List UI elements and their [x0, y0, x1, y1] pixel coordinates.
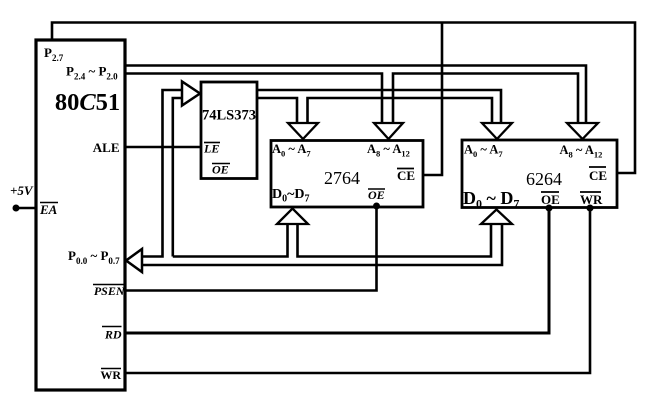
junction dot at 6264 WR pin	[587, 205, 594, 212]
bus arrowhead into 6264 A8~A12	[567, 123, 598, 139]
bus arrowhead into 2764 D0~D7	[277, 209, 308, 225]
bus latch output lower line to 2764 A0 stem	[257, 98, 297, 123]
svg-text:PSEN: PSEN	[94, 284, 126, 298]
SRAM U4 6264 box	[462, 140, 617, 208]
svg-text:74LS373: 74LS373	[202, 108, 256, 124]
bus P2.4~P2.0 lower line right segment to 6264 A8 stem	[393, 74, 578, 124]
svg-text:2764: 2764	[324, 168, 360, 188]
buffer triangle at 74LS373 input	[182, 82, 200, 106]
svg-text:+5V: +5V	[10, 183, 34, 198]
bus P2.4~P2.0 lower line left segment to 2764 A8 stem	[125, 74, 382, 124]
bus P0 latch stem right edge	[173, 98, 182, 257]
svg-text:CE: CE	[589, 168, 607, 183]
wire PSEN to 2764 OE	[125, 206, 377, 291]
svg-text:RD: RD	[104, 328, 122, 342]
microcontroller U1 80C51 box	[36, 40, 125, 390]
wire RD to 6264 OE	[125, 207, 549, 333]
svg-text:80C51: 80C51	[55, 89, 120, 116]
svg-text:D0 ~ D7: D0 ~ D7	[463, 188, 519, 211]
bus P2.4~P2.0 upper line	[125, 66, 586, 124]
bus P0 lower line full run	[142, 224, 502, 265]
svg-text:6264: 6264	[526, 169, 562, 189]
svg-text:WR: WR	[100, 368, 121, 382]
svg-text:EA: EA	[39, 202, 58, 217]
port P0 bidirectional triangle at 80C51	[126, 249, 142, 272]
svg-text:OE: OE	[368, 188, 385, 202]
svg-text:WR: WR	[580, 192, 603, 207]
latch U2 74LS373 box	[201, 82, 257, 179]
bus arrowhead into 2764 A0~A7	[288, 123, 318, 139]
wire branch P2.7 down to 2764 CE	[423, 23, 442, 176]
bus arrowhead into 6264 D0~D7	[481, 210, 512, 225]
bus latch output middle segment 2764 to 6264	[308, 98, 493, 123]
svg-text:D0~D7: D0~D7	[272, 187, 310, 205]
svg-text:OE: OE	[212, 163, 229, 177]
bus P0 upper line segment to 2764 D stem	[173, 224, 288, 257]
svg-text:CE: CE	[397, 168, 415, 183]
bus P0 upper line from port triangle up to latch input	[142, 90, 182, 257]
bus latch output upper line to 6264 A0 stem	[257, 90, 501, 123]
bus arrowhead into 2764 A8~A12	[374, 123, 403, 139]
svg-text:OE: OE	[541, 192, 560, 207]
junction dot at 6264 OE pin	[546, 205, 553, 212]
wire ALE to 74LS373 LE	[125, 146, 201, 149]
bus P0 upper line segment 2764 D to 6264 D stem	[298, 224, 492, 257]
wire +5V to EA pin	[16, 207, 36, 209]
bus arrowhead into 6264 A0~A7	[482, 123, 512, 139]
wire WR to 6264 WR	[125, 207, 590, 373]
svg-text:LE: LE	[203, 142, 219, 156]
EPROM U3 2764 box	[271, 141, 423, 208]
wire net P2.7 from 80C51 top across to 6264 CE	[52, 23, 635, 174]
svg-text:ALE: ALE	[93, 140, 120, 155]
node dot on EA input	[13, 205, 20, 212]
junction dot at 2764 OE pin	[373, 203, 380, 210]
